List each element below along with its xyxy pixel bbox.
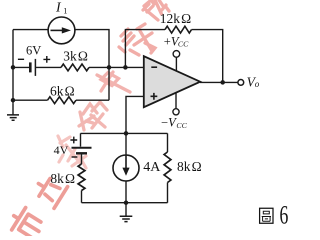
- svg-text:6: 6: [280, 200, 289, 229]
- -VCC supply terminal: [175, 93, 177, 109]
- ground left: [12, 103, 14, 114]
- wire: bottom network top rail: [81, 132, 168, 134]
- watermark char 7 (xiao, cut at top edge): [143, 0, 169, 20]
- polarity - of 4V battery: [72, 156, 78, 158]
- svg-text:I: I: [55, 1, 62, 16]
- resistor 6k: [48, 97, 77, 104]
- watermark char 6 (xue): [119, 24, 155, 55]
- node: left rail / 6k junction: [11, 98, 16, 103]
- svg-text:o: o: [255, 79, 260, 89]
- node: bottom network top junction: [124, 131, 129, 136]
- current source 4A: [113, 155, 139, 181]
- wire: non-inverting input down to bottom network: [126, 96, 144, 133]
- watermark (pink school-stamp characters, drawn under circuit): [7, 0, 169, 240]
- watermark char 5 (zhong): [97, 72, 130, 92]
- svg-text:CC: CC: [178, 40, 189, 49]
- svg-text:3k Ω: 3k Ω: [63, 49, 88, 64]
- wire: 4V battery branch: [81, 133, 82, 164]
- svg-text:12k Ω: 12k Ω: [160, 11, 191, 26]
- svg-text:1: 1: [63, 6, 67, 16]
- svg-text:6V: 6V: [26, 44, 41, 58]
- polarity + of 4V battery: [70, 137, 77, 144]
- circuit wires and symbols: [7, 17, 244, 222]
- wire: battery 6V branch to 3k and op-amp inverting input: [13, 66, 144, 68]
- op-amp U1: [144, 56, 200, 107]
- node: inverting input / 12k junction: [123, 65, 128, 70]
- svg-text:6k Ω: 6k Ω: [50, 83, 75, 98]
- figure caption: hand-drawn CJK "tu" (figure): [260, 208, 273, 223]
- watermark char 2 (li): [32, 173, 68, 209]
- polarity + of 6V battery: [43, 56, 50, 63]
- wire: bottom rail: [82, 202, 168, 204]
- svg-text:4A: 4A: [143, 160, 161, 175]
- ground center: [125, 203, 127, 216]
- polarity - of 6V battery: [18, 58, 24, 60]
- wire: top-left horizontal from left rail to I1: [13, 29, 48, 31]
- watermark char 4 (ji): [79, 102, 107, 130]
- resistor 8k left: [78, 164, 85, 191]
- wire: 8k-left bottom to bottom rail: [81, 191, 83, 203]
- node: output junction: [220, 80, 225, 85]
- svg-text:4V: 4V: [54, 143, 69, 157]
- wire: 8k-right branch verticals: [167, 133, 169, 202]
- node: bottom rail ground junction: [124, 200, 129, 205]
- resistor 8k right: [164, 152, 171, 183]
- watermark char 3 (gao): [58, 136, 86, 168]
- wire: op-amp output to Vo terminal: [200, 81, 238, 83]
- wire: 12k feedback from inverting node to output: [125, 30, 222, 83]
- svg-text:−V: −V: [161, 116, 177, 130]
- svg-text:8k Ω: 8k Ω: [177, 159, 202, 174]
- resistor 3k: [61, 64, 89, 71]
- wire: I1 right to corner, down to inverting node: [75, 30, 109, 101]
- battery 4V: [72, 147, 92, 149]
- +VCC supply terminal: [175, 57, 177, 71]
- resistor 12k: [165, 26, 192, 33]
- output terminal Vo: [238, 80, 244, 86]
- node: inverting input / I1-6k junction: [107, 65, 112, 70]
- wire: left rail vertical: [12, 30, 14, 104]
- svg-text:8k Ω: 8k Ω: [50, 171, 75, 186]
- svg-text:CC: CC: [176, 121, 187, 130]
- current source I1: [48, 17, 75, 44]
- wire: 4A branch verticals: [125, 133, 127, 202]
- node: left rail / battery junction: [11, 65, 16, 70]
- battery 6V: [29, 62, 32, 72]
- wire: 6k branch from left rail: [13, 99, 109, 101]
- watermark char 1 (shi): [7, 205, 46, 240]
